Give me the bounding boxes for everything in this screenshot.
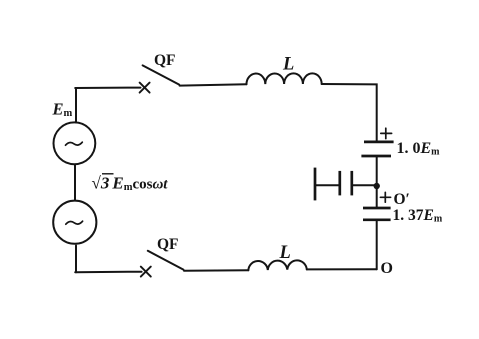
wire inductor to corner (top right) <box>322 84 377 141</box>
svg-text:L: L <box>279 243 291 263</box>
inductor L1 <box>246 73 321 84</box>
wire switch to inductor (bottom) <box>184 269 248 272</box>
capacitor C1 plates <box>361 142 393 156</box>
breaker QF2 blade <box>148 251 184 270</box>
svg-text:O: O <box>381 260 393 277</box>
branch capacitor plates <box>340 171 352 196</box>
fault mark x (top QF contact) <box>140 83 150 93</box>
svg-text:1. 0Em: 1. 0Em <box>397 140 441 158</box>
wire branch capacitor left lead <box>316 184 339 186</box>
svg-text:QF: QF <box>157 236 179 253</box>
wire bottom right <box>307 268 377 270</box>
wire C2 to node O <box>376 220 378 269</box>
source G1 circle <box>54 122 96 164</box>
svg-text:O′: O′ <box>394 191 410 208</box>
plus sign C1 <box>381 128 392 138</box>
fault mark x (bottom QF contact) <box>141 267 151 277</box>
svg-text:1. 37Em: 1. 37Em <box>393 207 443 225</box>
source G2 tilde <box>66 221 83 224</box>
wire top-left vertical <box>75 88 77 123</box>
wire top-left horizontal <box>75 87 140 89</box>
breaker QF1 blade <box>143 65 180 84</box>
wire bottom-left horizontal <box>75 271 141 274</box>
wire stub branch capacitor <box>352 184 376 186</box>
node O' junction dot <box>374 183 380 189</box>
wire switch to inductor (top) <box>180 84 247 85</box>
wire C1 to node O' <box>376 156 378 208</box>
terminal bar (branch left end) <box>314 168 317 201</box>
wire between sources <box>74 165 76 201</box>
svg-text:√3Emcosωt: √3Emcosωt <box>92 174 169 194</box>
plus sign node O' <box>380 192 390 202</box>
svg-text:Em: Em <box>52 100 73 120</box>
svg-text:L: L <box>282 54 294 74</box>
capacitor C2 plates <box>363 208 391 220</box>
source G2 circle <box>53 201 96 244</box>
label sqrt3 Em cos wt <box>92 174 169 194</box>
svg-text:QF: QF <box>154 52 176 69</box>
inductor L2 <box>248 260 306 270</box>
source G1 tilde <box>66 142 83 145</box>
wire bottom-left vertical <box>75 246 77 273</box>
